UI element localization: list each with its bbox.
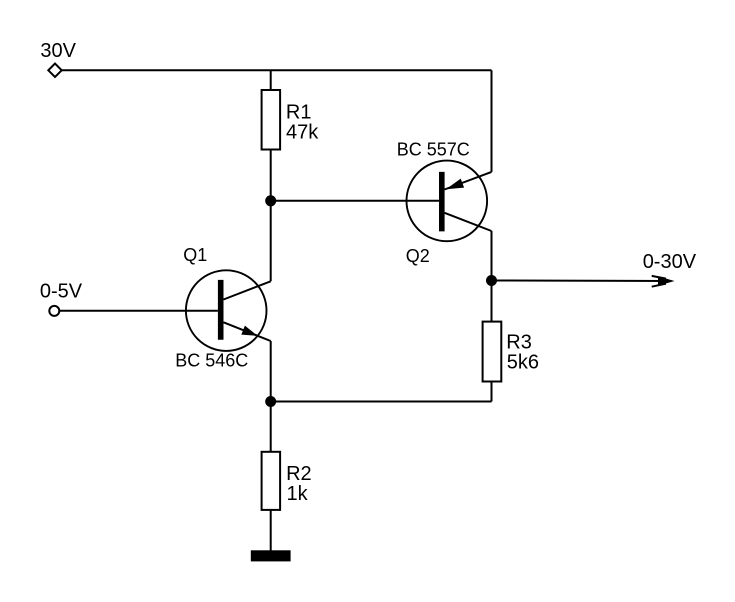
30V supply terminal diamond: [48, 64, 61, 77]
wire: Q1 emitter to node B: [270, 341, 272, 402]
wire: rail to R1 top: [270, 70, 272, 90]
svg-text:BC 557C: BC 557C: [397, 140, 470, 160]
transistor Q2 body circle: [407, 161, 488, 242]
Q2 emitter diagonal: [445, 172, 492, 190]
svg-text:R2: R2: [286, 463, 312, 485]
output arrowhead: [658, 276, 675, 286]
svg-text:1k: 1k: [287, 483, 309, 505]
Q1 base bar: [218, 280, 224, 340]
svg-text:30V: 30V: [40, 40, 76, 62]
transistor Q1 body circle: [186, 270, 267, 351]
ground: [251, 550, 291, 561]
svg-text:Q2: Q2: [406, 246, 430, 266]
Q1 emitter arrow: [241, 326, 257, 336]
svg-text:0-30V: 0-30V: [643, 251, 697, 273]
wire: R1 bottom to node A: [270, 150, 272, 201]
resistor R2: [262, 452, 281, 510]
node A junction dot: [265, 195, 276, 206]
resistor R3: [483, 322, 502, 382]
node B junction dot: [265, 396, 276, 407]
svg-text:0-5V: 0-5V: [40, 281, 83, 303]
svg-text:5k6: 5k6: [507, 352, 539, 374]
svg-text:R3: R3: [506, 332, 532, 354]
svg-text:47k: 47k: [286, 122, 319, 144]
output arrow barb upper: [652, 276, 666, 279]
wire: input to Q1 base: [59, 310, 218, 312]
wire: Q1 collector to node A: [270, 201, 272, 281]
svg-text:R1: R1: [286, 101, 312, 123]
wire: output: [492, 280, 669, 283]
resistor R1: [262, 90, 281, 150]
Q1 emitter diagonal: [224, 322, 271, 341]
wire: node B to R2 top: [270, 402, 272, 452]
wire: node C to R3 top: [491, 281, 493, 322]
wire: node A to Q2 base: [271, 200, 439, 202]
Q1 collector diagonal: [224, 281, 271, 299]
svg-text:BC 546C: BC 546C: [175, 351, 248, 371]
Q2 emitter arrow: [446, 179, 464, 190]
wire: Q2 emitter to 30V rail: [491, 70, 493, 172]
wire: bottom rail node B to R3: [271, 401, 492, 403]
wire: R3 bottom to bottom rail: [491, 382, 493, 402]
node C junction dot: [486, 275, 497, 286]
Q2 collector diagonal: [445, 213, 492, 231]
wire: R2 bottom to ground: [270, 510, 272, 556]
wire: 30V rail: [62, 69, 492, 71]
svg-text:Q1: Q1: [183, 245, 207, 265]
output arrow barb lower: [652, 284, 666, 287]
0-5V input terminal circle: [49, 306, 59, 316]
wire: Q2 collector to node C: [491, 231, 493, 281]
Q2 base bar: [439, 172, 445, 232]
